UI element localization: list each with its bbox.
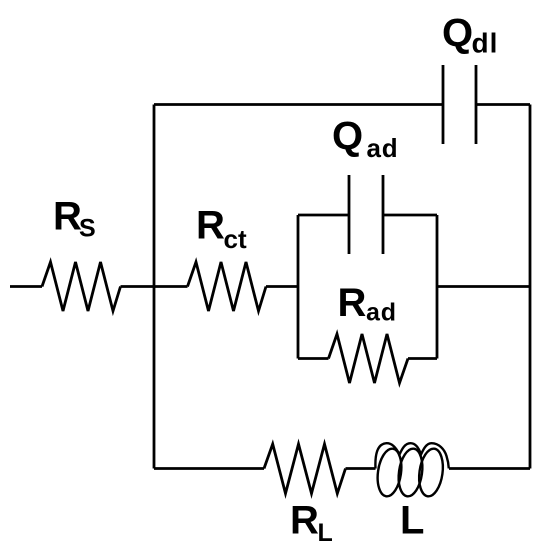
wire input lead [10,285,42,288]
svg-text:ct: ct [224,224,247,254]
label Q_dl [442,11,498,59]
label Q_ad [332,114,398,163]
inductor L [375,443,449,498]
capacitor Q_dl [443,65,476,144]
svg-text:L: L [318,519,333,547]
wire inner box top edge left of Q_ad [298,214,349,217]
label R_L [290,498,333,547]
svg-text:R: R [338,281,367,325]
capacitor Q_ad [349,175,383,254]
svg-text:ad: ad [366,299,397,327]
resistor R_ad [329,334,409,383]
svg-text:R: R [53,195,82,239]
resistor R_L [264,444,346,494]
wire left edge to R_ct [154,285,188,288]
wire outer box top edge left of Q_dl [154,103,443,106]
resistor R_ct [188,262,267,311]
svg-text:Q: Q [442,11,473,55]
wire inner box bottom edge left [298,357,329,360]
label R_ad [338,281,397,327]
wire inner box to outer right edge [437,285,530,288]
svg-text:ad: ad [367,133,399,163]
resistor R_S [42,262,121,311]
wire R_ct to inner box [266,285,298,288]
wire outer box right edge [529,105,532,469]
wire R_L to inductor [346,467,376,470]
wire inner box left edge [297,215,300,359]
svg-text:Q: Q [332,114,363,158]
label R_ct [196,204,247,254]
wire R_S to outer box left edge [121,285,155,288]
wire outer box bottom edge left [154,467,264,470]
svg-text:R: R [196,204,225,248]
wire inner box top edge right of Q_ad [383,214,437,217]
label L [400,498,424,542]
svg-text:R: R [290,498,319,542]
wire inner box right edge [436,215,439,359]
wire outer box top edge right of Q_dl [476,103,530,106]
wire inner box bottom edge right [408,357,437,360]
svg-text:L: L [400,498,424,542]
svg-text:S: S [79,215,96,243]
wire outer box left edge [153,105,156,469]
label R_S [53,195,96,243]
svg-text:dl: dl [472,28,499,59]
wire inductor to right edge [449,467,530,470]
